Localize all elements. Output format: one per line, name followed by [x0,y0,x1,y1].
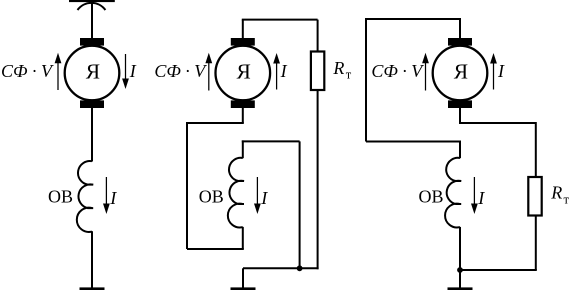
svg-text:I: I [129,61,137,81]
svg-text:I: I [497,61,505,81]
svg-text:СФ · V: СФ · V [154,61,207,81]
svg-text:Я: Я [454,60,468,84]
svg-text:Я: Я [86,60,100,84]
svg-text:СФ · V: СФ · V [1,61,54,81]
svg-text:I: I [109,188,117,208]
svg-text:Rт: Rт [550,183,569,207]
svg-text:СФ · V: СФ · V [371,61,424,81]
svg-text:Я: Я [237,60,251,84]
svg-text:I: I [260,188,268,208]
svg-text:ОВ: ОВ [199,187,224,207]
svg-text:I: I [280,61,288,81]
svg-text:I: I [477,188,485,208]
svg-text:ОВ: ОВ [418,187,443,207]
svg-text:ОВ: ОВ [48,187,73,207]
svg-text:Rт: Rт [332,58,351,82]
